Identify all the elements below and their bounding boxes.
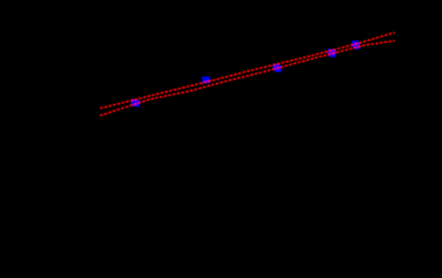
- data point pair 1: [131, 99, 140, 107]
- data point pair 5: [352, 41, 360, 50]
- data point pair 2: [202, 77, 210, 84]
- fit curve upper (dashed red): [100, 33, 395, 109]
- data point pair 3: [273, 64, 281, 72]
- fit curve lower (dashed red): [100, 41, 395, 116]
- data point pair 4: [328, 49, 336, 57]
